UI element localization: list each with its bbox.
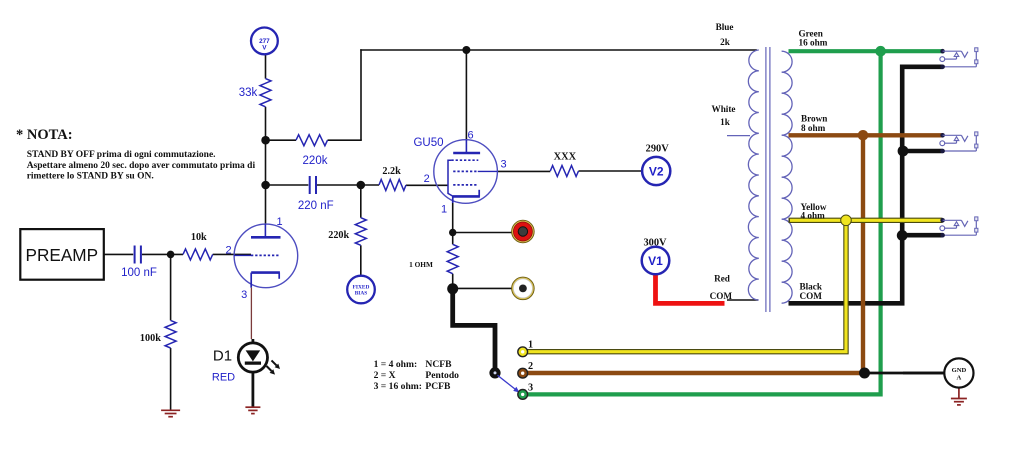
svg-text:3: 3	[528, 382, 533, 393]
svg-text:220k: 220k	[328, 230, 349, 241]
svg-text:PREAMP: PREAMP	[26, 245, 99, 265]
svg-text:2: 2	[424, 173, 430, 185]
svg-text:White: White	[712, 104, 736, 114]
svg-text:1 = 4 ohm:: 1 = 4 ohm:	[374, 359, 418, 370]
svg-text:XXX: XXX	[554, 151, 577, 162]
svg-text:1: 1	[528, 340, 533, 351]
svg-text:3: 3	[241, 289, 247, 301]
svg-text:1: 1	[276, 216, 282, 228]
svg-text:COM: COM	[710, 291, 733, 301]
svg-text:1k: 1k	[720, 117, 731, 127]
svg-text:V2: V2	[649, 164, 664, 178]
svg-text:4 ohm: 4 ohm	[801, 211, 826, 221]
svg-text:Black: Black	[800, 282, 823, 292]
svg-text:220 nF: 220 nF	[298, 200, 334, 212]
svg-text:8 ohm: 8 ohm	[801, 123, 826, 133]
svg-text:GU50: GU50	[413, 137, 443, 149]
svg-text:220k: 220k	[303, 155, 328, 167]
svg-text:D1: D1	[213, 347, 232, 364]
svg-text:2: 2	[225, 244, 231, 256]
svg-text:2.2k: 2.2k	[382, 166, 401, 177]
svg-text:3 = 16 ohm:: 3 = 16 ohm:	[374, 381, 422, 392]
svg-text:300V: 300V	[643, 238, 667, 249]
svg-text:2: 2	[528, 361, 533, 372]
svg-text:STAND BY OFF prima di ogni com: STAND BY OFF prima di ogni commutazione.	[27, 150, 216, 160]
svg-text:3: 3	[500, 159, 506, 171]
svg-text:1 OHM: 1 OHM	[409, 260, 433, 269]
svg-text:NCFB: NCFB	[425, 359, 452, 370]
svg-text:10k: 10k	[191, 232, 207, 243]
svg-text:Red: Red	[714, 274, 730, 284]
svg-text:V: V	[262, 44, 267, 51]
svg-text:33k: 33k	[239, 87, 258, 99]
svg-text:16 ohm: 16 ohm	[799, 38, 828, 48]
svg-text:Aspettare almeno 20 sec. dopo: Aspettare almeno 20 sec. dopo aver commu…	[27, 161, 256, 171]
svg-text:Pentodo: Pentodo	[425, 370, 459, 381]
svg-text:100k: 100k	[140, 333, 161, 344]
svg-text:V1: V1	[648, 254, 663, 268]
svg-text:Blue: Blue	[716, 22, 734, 32]
svg-text:FIXED: FIXED	[353, 284, 370, 290]
svg-text:1: 1	[441, 203, 447, 215]
svg-text:* NOTA:: * NOTA:	[16, 127, 73, 143]
svg-text:PCFB: PCFB	[425, 381, 451, 392]
svg-text:Brown: Brown	[801, 114, 827, 124]
svg-text:COM: COM	[800, 291, 823, 301]
svg-text:2k: 2k	[720, 37, 731, 47]
svg-text:100 nF: 100 nF	[121, 267, 157, 279]
svg-text:290V: 290V	[646, 143, 670, 154]
svg-text:RED: RED	[212, 372, 235, 384]
svg-text:GND: GND	[952, 367, 967, 374]
svg-text:BIAS: BIAS	[355, 291, 368, 297]
svg-text:6: 6	[468, 130, 474, 142]
svg-text:2 = X: 2 = X	[374, 370, 396, 381]
svg-text:A: A	[957, 374, 962, 381]
svg-text:rimettere lo STAND BY su ON.: rimettere lo STAND BY su ON.	[27, 171, 154, 181]
